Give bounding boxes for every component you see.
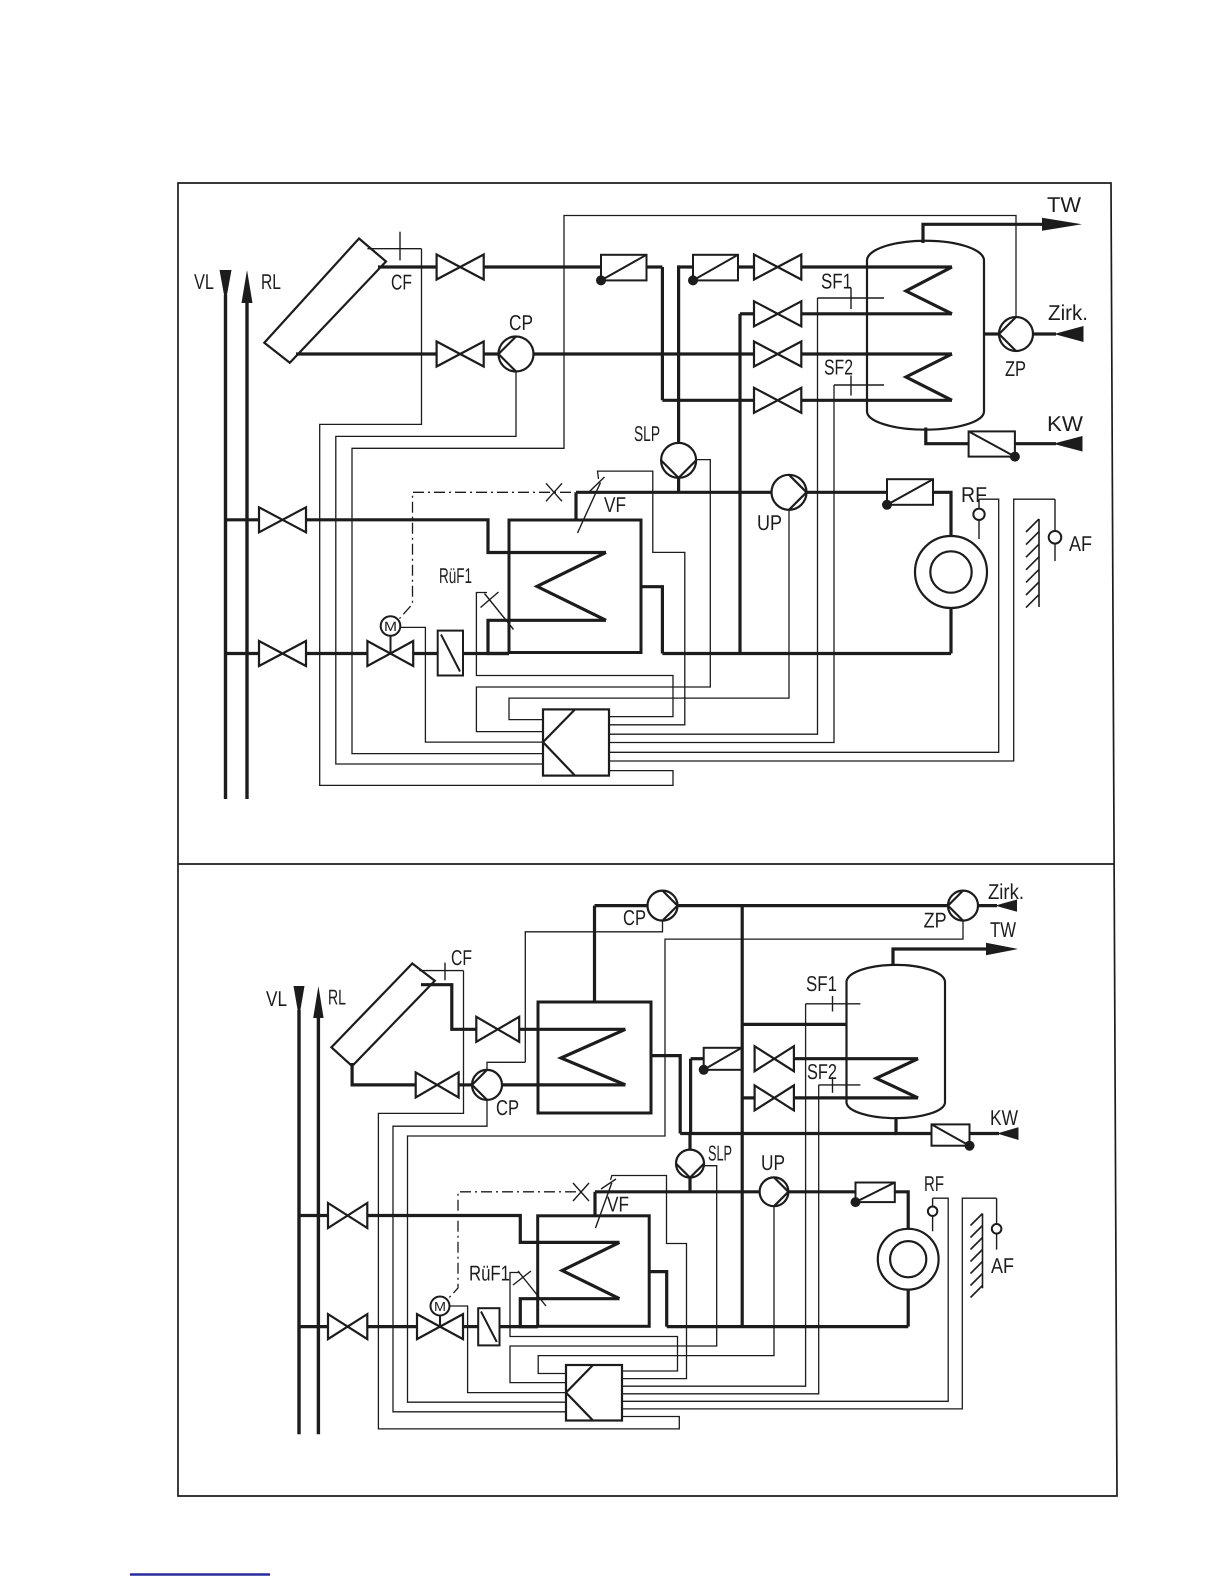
pump SLP <box>661 443 696 478</box>
solar heat exchanger U2 coil chevron <box>561 1029 625 1085</box>
pipe KW from tank 2 bottom <box>896 1117 932 1134</box>
pipe WMZ2 to tank valve row1 <box>738 265 754 268</box>
pipe valve to heat meter WMZ1 <box>484 265 601 268</box>
heat exchanger U1 box <box>509 520 641 653</box>
valve tank row3 <box>754 342 801 367</box>
storage tank panel 2 <box>847 965 946 1118</box>
labels panel 1 <box>194 193 1092 634</box>
pipe SLP riser to heat meter WMZ2 <box>679 265 693 443</box>
wire M actuator to controller (vertex row 742.1) <box>400 627 543 742</box>
sensor RF <box>973 499 984 539</box>
pipe VL to district valve (supply) <box>226 518 260 521</box>
wire RF to controller 2 (right edge row 1401.3) <box>622 1198 948 1401</box>
wire SF1 to controller 2 (right edge row 1386.2) <box>622 1004 806 1386</box>
valve collector return <box>437 342 484 367</box>
pipe solar riser to tank valve row4 <box>662 399 754 402</box>
pipe secondary supply line panel 2 <box>595 1190 760 1193</box>
wire solar riser down <box>661 267 664 400</box>
pump SLP stem <box>677 476 680 492</box>
wire SF2 to controller (right edge row 742.5) <box>609 385 834 743</box>
pipe cold water line to tank <box>680 1132 896 1135</box>
svg-text:CP: CP <box>623 906 646 930</box>
collector panel (solar) <box>264 239 386 363</box>
valve collector flow <box>437 255 484 280</box>
wire VF to controller (right edge row 724.8) <box>598 471 685 725</box>
pipe valve to motor valve panel 2 <box>367 1325 417 1328</box>
pipe RL to district valve return panel 2 <box>299 1325 328 1328</box>
tank upper coil chevron <box>906 267 952 314</box>
pipe TW from tank top <box>923 224 1044 243</box>
sensor SF2 panel 2 <box>819 1077 861 1093</box>
collector panel 2 <box>331 964 434 1067</box>
pump SLP panel 2 <box>676 1150 704 1178</box>
heat meter WMZ5 <box>852 1183 895 1207</box>
pipe radiator return <box>949 608 952 654</box>
sensor CF panel 2 <box>419 963 463 981</box>
svg-text:CP: CP <box>509 311 533 335</box>
svg-text:M: M <box>384 619 397 634</box>
pipe WMZ1 to solar riser <box>647 265 663 268</box>
svg-text:SF1: SF1 <box>821 270 852 294</box>
node RL return line <box>242 270 253 799</box>
pipe CP top pump to ZP pump <box>678 904 949 907</box>
sensor AF <box>1049 499 1062 561</box>
pipe heat exchanger primary out <box>488 620 606 653</box>
wire CP top pump to controller 2 (left edge row 1411.8) <box>525 921 662 1063</box>
pipe DHW riser from CP line down <box>741 906 744 1327</box>
pipe pump UP to heat meter WMZ5 <box>788 1190 855 1193</box>
pipe strainer to heat exchanger 2 <box>500 1325 539 1328</box>
strainer filter panel 2 <box>478 1308 499 1345</box>
pipe secondary supply line <box>576 491 772 494</box>
svg-text:SLP: SLP <box>708 1142 732 1166</box>
sensor SF1 <box>818 288 885 309</box>
wire SF2 to controller 2 (right edge row 1393.8) <box>622 1085 819 1394</box>
pipe heating return line panel 2 <box>667 1325 909 1328</box>
valve tank row2 <box>754 301 801 326</box>
heat exchanger U1 coil chevron <box>537 553 606 621</box>
heat exchanger U3 box <box>538 1216 650 1327</box>
sensor position mark X on supply panel 2 <box>573 1183 589 1201</box>
strainer filter <box>438 631 463 676</box>
pipe valve to heat exchanger primary in <box>306 520 606 553</box>
wire SF1 to controller (right edge row 734.2) <box>609 298 818 734</box>
sensor SF1 panel 2 <box>806 996 861 1012</box>
svg-text:AF: AF <box>1069 532 1092 556</box>
pipe pump ZP to Zirk arrow <box>1033 332 1056 335</box>
node KW arrow <box>1053 436 1083 452</box>
svg-text:VF: VF <box>604 493 626 517</box>
storage tank <box>867 241 984 430</box>
heat meter WMZ3 <box>883 479 933 509</box>
wire CP solar pump to controller 2 (joins CP row) <box>487 1062 525 1070</box>
pump UP panel 2 <box>760 1177 789 1206</box>
pipe motor valve to strainer <box>413 652 438 655</box>
svg-text:RF: RF <box>924 1172 944 1196</box>
radiator heating circuit <box>915 536 987 608</box>
svg-text:M: M <box>434 1299 446 1314</box>
wire RuF1 to controller (right edge row 716.6) <box>476 593 673 717</box>
valve collector 2 flow <box>476 1017 519 1042</box>
wire M actuator to controller 2 (vertex row 1392.6) <box>450 1306 567 1393</box>
wire ZP pump to controller (left edge row 753.6) <box>352 216 1016 754</box>
motor valve body <box>367 641 413 666</box>
pipe collector flow to valve <box>378 265 437 268</box>
wire RuF1 to controller 2 (right edge row 1371) <box>510 1273 678 1372</box>
valve tank row1 <box>754 255 801 280</box>
wire SLP pump to controller (left edge row 731.6) <box>476 460 710 732</box>
pipe pump UP to heat meter WMZ3 <box>807 491 888 494</box>
pump ZP panel 2 <box>948 891 978 921</box>
pipe tank coil bottom to valve <box>794 1096 918 1099</box>
node Zirk arrow <box>1054 326 1084 342</box>
sensor VF diagonal panel 2 <box>596 1179 617 1228</box>
motor valve actuator M <box>381 616 401 653</box>
pipe collector 2 top to valve <box>421 985 476 1030</box>
pipe tank to pump ZP <box>984 332 999 335</box>
pipe strainer to heat exchanger <box>463 652 509 655</box>
pipe DHW riser to tank upper port <box>742 1023 846 1026</box>
sensor VF diagonal <box>578 477 605 533</box>
svg-text:SF2: SF2 <box>807 1060 837 1084</box>
pipe valve to motor valve <box>306 652 367 655</box>
svg-text:CF: CF <box>451 946 472 970</box>
controller box panel 2 <box>566 1365 622 1421</box>
svg-text:KW: KW <box>1047 412 1084 436</box>
wire SLP pump to controller 2 (left edge row 1382.6) <box>510 1166 717 1383</box>
sensor AF panel 2 <box>992 1198 1002 1249</box>
wire ZP pump to controller 2 (left edge row 1402.2) <box>408 921 964 1403</box>
pipe valve row2 to DHW return riser <box>740 312 754 315</box>
heat meter WMZ4 <box>700 1048 742 1074</box>
pipe TW from tank 2 top <box>893 949 988 966</box>
wire CF to controller 2 (right edge row 1416.5) <box>378 971 679 1429</box>
controller box panel 1 <box>543 709 609 775</box>
wire UP pump to controller 2 (left edge row 1373.5) <box>538 1206 774 1373</box>
pipe motor valve to strainer panel 2 <box>463 1325 478 1328</box>
pipe WMZ3 to radiator <box>933 492 951 536</box>
pipe VL to district valve supply panel 2 <box>299 1214 328 1217</box>
pipe KW meter to KW arrow <box>1015 442 1056 445</box>
svg-text:RL: RL <box>261 270 281 294</box>
pipe KW meter to arrow panel 2 <box>970 1132 1000 1135</box>
pump CP solar <box>472 1070 502 1100</box>
svg-text:SF1: SF1 <box>806 972 837 996</box>
pipe valve to solar heat exchanger 2 <box>519 1028 625 1031</box>
pipe heat exchanger secondary supply riser <box>574 492 577 520</box>
valve tank row4 <box>754 388 801 413</box>
water meter KW <box>969 431 1019 460</box>
pipe valve row1 into tank upper coil top <box>801 265 952 268</box>
pipe WMZ4 riser <box>689 1059 692 1134</box>
svg-text:KW: KW <box>990 1106 1019 1130</box>
pipe WMZ4 riser to meter <box>691 1057 704 1060</box>
pipe collector return from panel to valve <box>296 352 437 355</box>
node KW arrow panel 2 <box>997 1127 1019 1140</box>
heat meter WMZ2 <box>689 255 738 285</box>
node VL supply line <box>220 270 232 799</box>
svg-text:UP: UP <box>761 1151 785 1175</box>
svg-text:RL: RL <box>328 986 346 1010</box>
pipe radiator return panel 2 <box>907 1290 910 1327</box>
pipe valve row4 into tank lower coil bottom <box>801 399 952 402</box>
pipe heat exchanger secondary return step <box>641 587 662 654</box>
solar heat exchanger U2 box <box>538 1002 651 1113</box>
svg-text:AF: AF <box>991 1254 1014 1278</box>
wall symbol for AF <box>1026 519 1039 608</box>
pipe valve to pump CP <box>484 352 499 355</box>
pipe solar HX coil bottom out <box>502 1083 625 1086</box>
svg-text:ZP: ZP <box>1005 357 1026 381</box>
wire CF sensor to controller (right edge row 770.6) <box>320 249 673 786</box>
node Zirk arrow panel 2 <box>995 900 1017 912</box>
svg-text:TW: TW <box>1047 193 1082 217</box>
wire AF to controller (right edge row 761) <box>609 499 1055 761</box>
motor valve actuator M panel 2 <box>431 1297 450 1327</box>
radiator heating circuit panel 2 <box>878 1229 939 1290</box>
sensor RuF1 diagonal panel 2 <box>513 1271 546 1306</box>
pipe tank upper coil bottom to valve row2 <box>801 312 952 315</box>
valve district return <box>259 641 306 666</box>
water meter KW panel 2 <box>932 1124 974 1149</box>
svg-text:SLP: SLP <box>634 422 660 446</box>
pipe heat exchanger 2 primary out <box>520 1299 619 1327</box>
node VL supply line panel 2 <box>294 986 305 1434</box>
pump CP <box>499 337 534 372</box>
pump ZP <box>999 317 1033 351</box>
pump SLP stem panel 2 <box>688 1134 691 1192</box>
pump UP <box>772 475 807 510</box>
dash-dot capillary VF to motor valve panel 2 <box>447 1192 576 1300</box>
valve tank charge top row <box>755 1046 794 1071</box>
heat exchanger U3 coil chevron <box>562 1242 619 1298</box>
node TW arrow panel 2 <box>986 943 1018 955</box>
pipe CP top line <box>595 904 648 907</box>
pipe RL to district valve (return) <box>226 652 260 655</box>
pipe valve to heat exchanger 2 primary in <box>367 1216 619 1243</box>
wire AF to controller 2 (right edge row 1408.9) <box>622 1198 997 1409</box>
svg-text:VL: VL <box>194 270 214 294</box>
blue underline artifact bottom left <box>130 1573 270 1575</box>
pump CP top <box>648 891 678 921</box>
wire UP pump to controller (left edge row 719.6) <box>509 510 789 720</box>
labels panel 2 <box>266 880 1024 1314</box>
svg-text:RF: RF <box>961 483 987 507</box>
pipe valve row3 into tank lower coil top <box>801 352 952 355</box>
pipe valve to tank coil top <box>794 1057 918 1060</box>
pipe valve to DHW riser <box>742 1096 754 1099</box>
svg-text:ZP: ZP <box>924 909 947 933</box>
svg-text:Zirk.: Zirk. <box>988 880 1024 904</box>
svg-text:RüF1: RüF1 <box>439 564 472 588</box>
valve collector 2 return <box>416 1072 459 1097</box>
svg-text:CP: CP <box>496 1096 519 1120</box>
sensor RuF1 diagonal <box>481 592 514 630</box>
wire RF to controller (right edge row 752.3) <box>609 499 999 752</box>
pipe solar HX right port step <box>651 1056 680 1134</box>
pipe collector 2 bottom to valve <box>352 1063 416 1085</box>
svg-text:Zirk.: Zirk. <box>1048 301 1088 325</box>
valve district supply <box>259 507 306 532</box>
valve tank charge bottom row <box>755 1085 794 1110</box>
motor valve body panel 2 <box>417 1314 463 1339</box>
dash-dot capillary VF to motor valve <box>400 492 572 618</box>
valve district supply panel 2 <box>328 1203 367 1228</box>
pipe ZP to Zirk arrow panel 2 <box>978 904 997 907</box>
pipe valve to pump CP solar <box>459 1083 472 1086</box>
svg-text:VF: VF <box>607 1193 629 1217</box>
wire VF to controller 2 (right edge row 1378.6) <box>611 1176 687 1379</box>
svg-text:TW: TW <box>990 918 1017 942</box>
pipe heating return line <box>662 652 951 655</box>
node TW arrow <box>1042 218 1082 231</box>
wall symbol for AF panel 2 <box>971 1214 983 1298</box>
svg-text:SF2: SF2 <box>824 356 853 380</box>
pipe heat exchanger 2 secondary supply riser <box>593 1192 596 1216</box>
wire CP pump to controller (left edge row 764) <box>336 372 543 764</box>
pipe WMZ5 to radiator panel 2 <box>895 1192 908 1229</box>
pipe riser CP line to solar HX top <box>593 906 596 1002</box>
valve district return panel 2 <box>328 1314 367 1339</box>
tank 2 coil chevron <box>876 1059 918 1098</box>
sensor SF2 <box>834 376 884 396</box>
heat meter WMZ1 <box>597 255 647 285</box>
pipe heat exchanger 2 secondary return step <box>649 1272 667 1327</box>
pipe pump CP to tank valve row3 <box>534 352 755 355</box>
frame panel 1 and panel 2 border <box>178 183 1117 1496</box>
svg-text:RüF1: RüF1 <box>469 1262 510 1286</box>
svg-text:UP: UP <box>757 511 782 535</box>
sensor CF <box>367 232 421 261</box>
sensor position mark X on supply <box>546 483 562 501</box>
sensor RF panel 2 <box>928 1198 937 1231</box>
tank lower coil chevron <box>906 354 952 400</box>
pipe KW from tank bottom <box>926 428 969 444</box>
pipe DHW return riser down to return line <box>738 314 741 654</box>
svg-text:CF: CF <box>391 271 412 295</box>
node RL return line panel 2 <box>313 986 323 1434</box>
svg-text:VL: VL <box>266 987 287 1011</box>
